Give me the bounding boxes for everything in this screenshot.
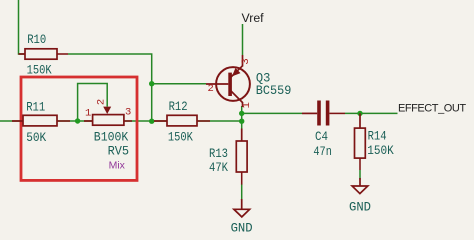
red selection box: [21, 77, 137, 180]
transistor Q3: [206, 55, 291, 108]
svg-text:R13: R13: [209, 146, 228, 161]
svg-text:BC559: BC559: [256, 83, 291, 98]
wire R13 to GND: [241, 184, 243, 200]
power label Vref: [242, 11, 265, 25]
ground below R13: [231, 199, 253, 236]
svg-text:R14: R14: [368, 129, 387, 144]
wire C4 to R14 node to EFFECT_OUT: [345, 112, 398, 114]
svg-text:1: 1: [241, 102, 253, 108]
resistor R14: [355, 113, 394, 170]
svg-text:47n: 47n: [313, 144, 332, 159]
ground below R14: [349, 178, 371, 215]
resistor R12: [154, 99, 210, 144]
wire R14 to GND: [359, 170, 361, 180]
svg-text:150K: 150K: [367, 143, 394, 158]
wire pot to R12 to collector node: [124, 120, 242, 122]
svg-text:R12: R12: [169, 99, 188, 114]
svg-text:B100K: B100K: [94, 130, 129, 145]
svg-text:R11: R11: [26, 100, 45, 115]
resistor R10: [19, 32, 69, 77]
svg-text:1: 1: [85, 107, 91, 119]
wire from top edge into R10: [19, 0, 26, 54]
svg-text:2: 2: [95, 99, 107, 105]
svg-text:C4: C4: [315, 129, 328, 144]
svg-text:2: 2: [207, 83, 213, 95]
svg-text:GND: GND: [231, 221, 253, 236]
node junction base tee: [149, 81, 154, 86]
node junction main path: [149, 119, 154, 124]
svg-text:RV5: RV5: [108, 144, 130, 159]
node junction R11/pot wiper: [75, 118, 80, 123]
svg-text:Vref: Vref: [242, 11, 265, 25]
wire main signal path left segment: [0, 120, 93, 122]
wire collector node to C4: [242, 112, 302, 114]
potentiometer RV5: [84, 99, 132, 172]
svg-text:EFFECT_OUT: EFFECT_OUT: [398, 103, 466, 115]
svg-text:150K: 150K: [168, 129, 193, 144]
resistor R11: [12, 100, 70, 145]
capacitor C4: [302, 101, 345, 160]
svg-text:R10: R10: [27, 32, 46, 47]
svg-text:Mix: Mix: [109, 160, 126, 172]
wire Vref to Q3 emitter: [242, 24, 244, 55]
node junction collector/C4: [239, 111, 244, 116]
wire collector branch vertical: [241, 106, 243, 129]
node junction R14: [357, 111, 362, 116]
wire R10 output to base node: [68, 54, 152, 121]
RV5 wiper arrow: [103, 107, 111, 114]
resistor R13: [209, 129, 247, 185]
svg-text:GND: GND: [349, 200, 371, 215]
svg-text:3: 3: [240, 58, 252, 64]
wire base node to Q3 base: [152, 83, 206, 85]
svg-text:3: 3: [125, 107, 131, 119]
svg-text:47K: 47K: [209, 160, 228, 175]
label EFFECT_OUT: [398, 103, 466, 115]
svg-text:50K: 50K: [26, 130, 46, 145]
svg-text:150K: 150K: [27, 62, 52, 77]
wire pot wiper loop: [78, 84, 108, 122]
node junction collector/R12: [239, 119, 244, 124]
